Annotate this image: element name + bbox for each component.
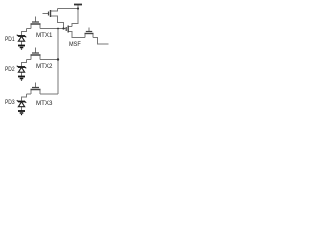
svg-text:MTX2: MTX2 — [36, 63, 53, 70]
svg-text:PD1: PD1 — [5, 36, 15, 43]
svg-text:MSF: MSF — [69, 41, 81, 48]
svg-text:MTX3: MTX3 — [36, 100, 53, 107]
svg-text:MTX1: MTX1 — [36, 32, 53, 39]
svg-text:PD2: PD2 — [5, 66, 15, 73]
svg-text:PD3: PD3 — [5, 99, 15, 106]
